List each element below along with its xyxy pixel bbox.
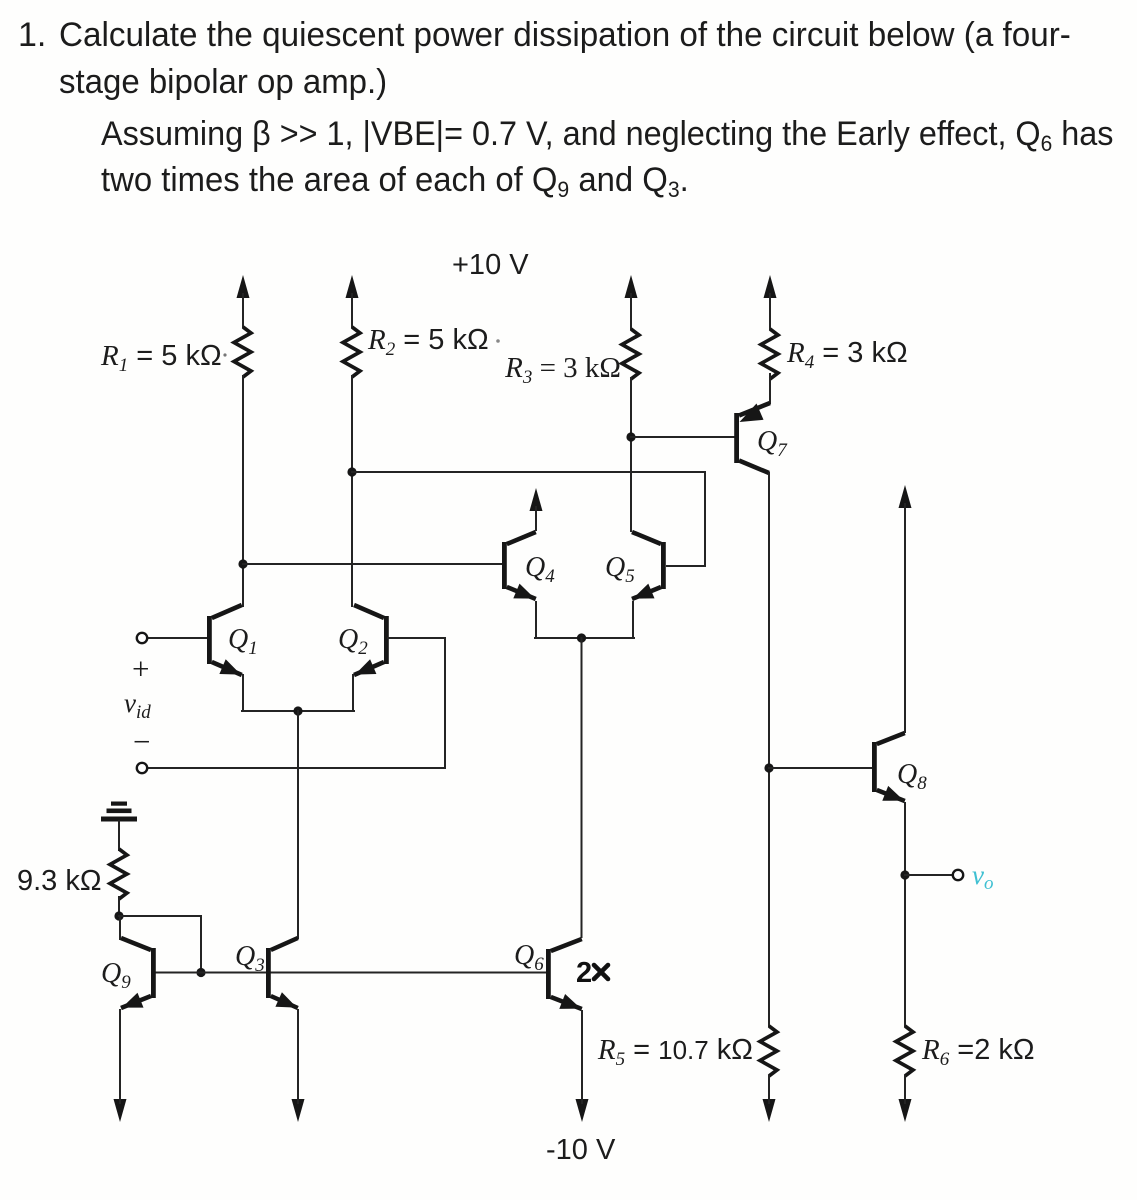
label vo	[972, 860, 993, 894]
svg-text:vid: vid	[124, 688, 151, 723]
wire emitter bus down to Q6 collector	[581, 638, 583, 937]
wire base rail Q9 Q3 Q6	[156, 972, 546, 974]
svg-text:vo: vo	[972, 860, 993, 894]
svg-text:+: +	[132, 651, 149, 686]
wire Q7 collector down to R5	[768, 473, 770, 1026]
label Q6	[514, 940, 544, 975]
resistor R1	[234, 327, 251, 377]
down arrow -10V below R6	[899, 1075, 912, 1122]
down arrow -10V below R5	[763, 1075, 776, 1122]
up arrow +10V rail at R3	[625, 275, 638, 330]
svg-text:R6 =2 kΩ: R6 =2 kΩ	[921, 1034, 1035, 1070]
wire tail horizontal	[242, 710, 354, 712]
label R3 = 3 kOhm	[504, 352, 621, 388]
label +10 V	[452, 249, 529, 281]
up arrow +10V at Q8 collector	[899, 485, 912, 733]
svg-text:R3 = 3 kΩ: R3 = 3 kΩ	[504, 352, 621, 388]
terminal vid minus input	[137, 763, 147, 773]
label Q9	[101, 958, 131, 993]
wire 9.3k to bias node	[118, 897, 120, 917]
node Q1 collector / Q4 base junction	[238, 559, 247, 568]
label 2x area of Q6	[576, 957, 608, 989]
node R2 / Q5 base junction	[347, 467, 356, 476]
node bias junction below 9.3k	[114, 911, 123, 920]
wire Q1 emitter to tail	[242, 675, 244, 711]
svg-text:Q4: Q4	[525, 552, 555, 587]
up arrow +10V rail at R4	[764, 275, 777, 330]
svg-text:Q1: Q1	[228, 624, 258, 659]
wire R3 bottom to Q7 base node	[630, 378, 632, 531]
label R6 = 2 kOhm	[921, 1034, 1035, 1070]
svg-text:Q8: Q8	[897, 759, 927, 794]
wire Q4 emitter down	[535, 602, 537, 638]
resistor R3	[622, 329, 639, 379]
down arrow -10V at Q6 emitter	[576, 1010, 589, 1122]
transistor Q3	[268, 938, 297, 1008]
resistor 9.3 kOhm	[110, 849, 127, 899]
wire vo stub	[905, 874, 952, 876]
wire Q5 emitter down	[632, 602, 634, 638]
svg-text:R4 = 3 kΩ: R4 = 3 kΩ	[786, 337, 908, 373]
label Q5	[605, 552, 635, 587]
svg-text:Q6: Q6	[514, 940, 544, 975]
label Q2	[338, 624, 368, 659]
label Q1	[228, 624, 258, 659]
node tail junction	[293, 706, 302, 715]
label R2 = 5 kOhm	[367, 324, 489, 360]
ground	[101, 802, 137, 822]
label 9.3 kOhm	[17, 865, 102, 897]
svg-text:R2 = 5 kΩ: R2 = 5 kΩ	[367, 324, 489, 360]
svg-text:+10 V: +10 V	[452, 249, 529, 281]
resistor R6	[896, 1026, 913, 1076]
wire Q4 Q5 emitter bus	[535, 637, 634, 639]
wire R4 bottom to Q7 emitter	[769, 374, 771, 403]
wire Q4 base	[243, 563, 501, 565]
label R1 = 5 kOhm	[100, 340, 222, 376]
svg-text:Q3: Q3	[235, 941, 265, 976]
node base rail junction	[196, 968, 205, 977]
up arrow +10V rail at R2	[346, 275, 359, 328]
wire Q8 base	[769, 767, 871, 769]
wire R2 bottom to Q2 collector node	[351, 376, 353, 606]
node vo junction	[900, 870, 909, 879]
resistor R2	[343, 327, 360, 377]
transistor Q1	[209, 605, 241, 675]
wire ground to 9.3k resistor	[118, 821, 120, 850]
scan dot after R1 label	[223, 353, 226, 356]
wire R2 node to Q5 base route	[352, 472, 705, 566]
transistor Q7	[737, 403, 770, 473]
svg-text:9.3 kΩ: 9.3 kΩ	[17, 865, 102, 897]
label R4 = 3 kOhm	[786, 337, 908, 373]
wire Q1 base	[147, 637, 206, 639]
transistor Q2	[354, 605, 386, 675]
transistor Q5	[632, 532, 663, 599]
transistor Q8	[874, 733, 904, 801]
svg-text:−: −	[133, 724, 150, 759]
svg-text:Q9: Q9	[101, 958, 131, 993]
label Q3	[235, 941, 265, 976]
node Q8 base junction	[764, 763, 773, 772]
node Q4 Q5 emitter junction	[577, 633, 586, 642]
terminal vid plus input	[137, 633, 147, 643]
label Q4	[525, 552, 555, 587]
wire Q8 emitter down to R6	[904, 803, 906, 1026]
svg-text:2: 2	[576, 957, 592, 989]
node R3 / Q7 base junction	[626, 432, 635, 441]
label -10 V	[546, 1134, 616, 1166]
wire Q9 collector link	[119, 916, 121, 939]
down arrow -10V at Q3 emitter	[292, 1009, 305, 1122]
svg-text:Q5: Q5	[605, 552, 635, 587]
label R5 = 10.7 kOhm	[597, 1034, 753, 1070]
label Q8	[897, 759, 927, 794]
wire R1 bottom to Q1 collector node	[242, 376, 244, 606]
wire Q2 base route	[147, 638, 445, 768]
down arrow -10V at Q9 emitter	[114, 1009, 127, 1122]
up arrow +10V at Q4 collector	[530, 488, 543, 531]
wire Q2 emitter to tail	[352, 675, 354, 711]
transistor Q9	[121, 938, 153, 1008]
wire tail down to Q3 collector	[297, 711, 299, 938]
scan dot after R2 label	[496, 339, 500, 343]
svg-text:R1 = 5 kΩ: R1 = 5 kΩ	[100, 340, 222, 376]
resistor R5	[760, 1026, 777, 1076]
terminal vo	[953, 870, 963, 880]
svg-text:R5 = 10.7 kΩ: R5 = 10.7 kΩ	[597, 1034, 753, 1070]
svg-text:Q7: Q7	[757, 426, 788, 461]
svg-text:Q2: Q2	[338, 624, 368, 659]
label Q7	[757, 426, 788, 461]
wire bias node to base rail jog	[119, 916, 201, 973]
label vid	[124, 688, 151, 723]
transistor Q6	[548, 939, 581, 1009]
resistor R4	[761, 329, 778, 379]
transistor Q4	[504, 532, 535, 599]
up arrow +10V rail at R1	[237, 275, 250, 328]
svg-text:-10 V: -10 V	[546, 1134, 616, 1166]
label minus sign	[133, 724, 150, 759]
label plus sign	[132, 651, 149, 686]
wire Q7 base	[631, 436, 734, 438]
